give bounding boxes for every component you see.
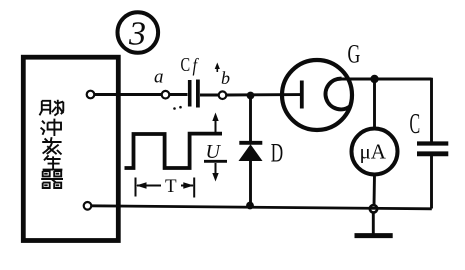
wire node a to capacitor Cf — [169, 93, 187, 96]
svg-text:T: T — [165, 176, 177, 197]
label b with arrow mark — [215, 63, 230, 89]
svg-text:a: a — [154, 67, 164, 88]
figure number 3 — [118, 12, 159, 53]
junction diode D / bottom wire — [246, 202, 254, 210]
svg-text:f: f — [193, 54, 199, 76]
svg-text:U: U — [206, 141, 222, 163]
svg-text:G: G — [348, 39, 361, 68]
char 生 — [43, 155, 63, 169]
wire terminal1 to node a — [94, 93, 161, 96]
pulse generator box U1 — [23, 57, 118, 240]
char 发 — [42, 137, 61, 154]
dimension U (amplitude) — [204, 113, 227, 182]
node a — [162, 91, 170, 99]
svg-text:3: 3 — [128, 16, 146, 53]
char 器 — [41, 171, 63, 188]
char 脉 — [40, 100, 64, 116]
wire capacitor Cf to node b — [200, 94, 219, 97]
char 冲 — [41, 119, 61, 136]
wire node b to tube plate — [226, 93, 300, 96]
junction top wire / microammeter — [370, 75, 378, 83]
bottom wire — [91, 206, 432, 209]
svg-text:D: D — [271, 138, 283, 168]
gas tube G — [282, 39, 360, 130]
junction bottom wire / meter / ground — [370, 205, 377, 212]
capacitor Cf — [181, 53, 199, 108]
terminal (lower output) — [84, 202, 92, 210]
microammeter M1 (uA) — [352, 79, 398, 206]
svg-text:C: C — [410, 108, 421, 140]
pulse waveform annotation — [125, 106, 223, 168]
diode D — [239, 96, 284, 207]
pulse generator label 脉冲发生器 — [40, 100, 64, 188]
wire capacitor C to bottom wire — [430, 156, 433, 209]
ground — [355, 212, 393, 236]
wire top right corner down to capacitor C — [430, 78, 433, 142]
terminal (upper output) — [87, 91, 95, 99]
node b — [219, 91, 227, 99]
svg-text:μA: μA — [360, 140, 387, 164]
dimension T (period) — [136, 176, 195, 198]
svg-text:b: b — [221, 68, 230, 88]
wire tube G anode to top right corner — [339, 78, 432, 81]
capacitor C — [410, 108, 449, 154]
junction at node b wire / diode D — [247, 92, 255, 100]
svg-text:C: C — [181, 53, 191, 76]
